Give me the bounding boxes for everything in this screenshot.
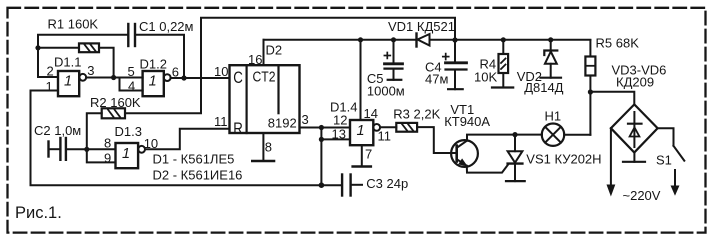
svg-text:4: 4 xyxy=(128,78,135,93)
svg-text:C2 1,0м: C2 1,0м xyxy=(34,123,81,138)
svg-text:10K: 10K xyxy=(474,70,497,85)
svg-text:CT2: CT2 xyxy=(253,69,276,86)
bottom wire pin1 to C3 xyxy=(31,91,342,186)
wire R2 right up to top rail and down to C4 node xyxy=(125,18,455,114)
svg-text:D1.1: D1.1 xyxy=(54,55,81,70)
wire C2 right to D1.3 pin8 xyxy=(67,148,116,150)
resistor R3 xyxy=(396,123,417,132)
svg-text:R5 68K: R5 68K xyxy=(596,36,640,51)
emitter wire to VS1 gate xyxy=(467,165,508,173)
svg-text:16: 16 xyxy=(248,52,262,67)
bridge bottom ground xyxy=(633,153,635,162)
svg-text:11: 11 xyxy=(378,128,392,143)
svg-text:R3 2,2K: R3 2,2K xyxy=(393,107,440,122)
counter D2 box xyxy=(230,65,300,133)
capacitor C3 xyxy=(341,175,343,196)
wire step to pin4 xyxy=(120,78,143,91)
bridge VD3-VD6 diamond xyxy=(611,104,658,152)
supply rail segment B xyxy=(430,39,591,41)
capacitor C5 xyxy=(393,40,395,63)
node junction R1 left xyxy=(35,45,40,50)
wire R1 right down to node xyxy=(99,48,114,78)
svg-text:C1 0,22м: C1 0,22м xyxy=(139,19,194,34)
wire R5/H1 node to bridge top xyxy=(590,92,634,105)
svg-text:VD1 КД521: VD1 КД521 xyxy=(388,19,455,34)
svg-text:R1 160K: R1 160K xyxy=(48,17,99,32)
lamp H1 xyxy=(542,124,564,146)
wire to pin 9 xyxy=(87,149,116,162)
svg-text:10: 10 xyxy=(214,64,228,79)
svg-text:H1: H1 xyxy=(545,108,562,123)
svg-text:D1 - К561ЛЕ5: D1 - К561ЛЕ5 xyxy=(153,151,235,166)
output bubble pin 3 xyxy=(79,74,86,81)
svg-text:8192: 8192 xyxy=(268,116,297,131)
thyristor VS1 xyxy=(512,132,517,137)
pin 8 ground xyxy=(262,133,264,161)
svg-text:R2 160K: R2 160K xyxy=(90,95,141,110)
svg-text:1000м: 1000м xyxy=(367,84,405,99)
op-amp gate D1.2 xyxy=(143,71,164,96)
output bubble pin 11 xyxy=(373,124,380,131)
zener VD2 xyxy=(550,40,552,51)
svg-text:D2: D2 xyxy=(266,43,283,58)
svg-text:1: 1 xyxy=(357,123,365,139)
capacitor C1 xyxy=(127,24,129,46)
node bottom bus junction xyxy=(319,182,325,188)
capacitor C4 xyxy=(454,40,456,62)
pin 2 xyxy=(38,76,58,78)
resistor R4 xyxy=(502,40,504,54)
svg-text:S1: S1 xyxy=(656,153,672,168)
svg-text:C: C xyxy=(233,68,243,87)
svg-text:КД209: КД209 xyxy=(616,75,654,90)
node pin3 junction xyxy=(111,75,116,80)
svg-text:13: 13 xyxy=(332,126,346,141)
svg-text:D1.3: D1.3 xyxy=(115,124,142,139)
svg-text:C3 24p: C3 24p xyxy=(366,176,408,191)
wire pin6 to D2 pin10 xyxy=(171,77,230,79)
resistor R2 xyxy=(102,108,125,118)
svg-text:1: 1 xyxy=(149,74,157,90)
svg-text:7: 7 xyxy=(365,146,372,161)
svg-text:8: 8 xyxy=(265,140,272,155)
svg-text:3: 3 xyxy=(302,112,309,127)
pin 7 ground xyxy=(361,145,363,166)
svg-text:9: 9 xyxy=(104,151,111,166)
svg-text:14: 14 xyxy=(364,106,378,121)
wire C1 right down to pin6 node xyxy=(135,35,184,78)
wire R1 left xyxy=(38,47,79,49)
svg-text:5: 5 xyxy=(128,64,135,79)
svg-text:R: R xyxy=(233,119,243,138)
wire R3 to base xyxy=(417,127,456,153)
svg-text:D2 - К561ИЕ16: D2 - К561ИЕ16 xyxy=(153,168,243,183)
output bubble pin 10 xyxy=(138,146,145,153)
svg-text:~220V: ~220V xyxy=(623,188,661,203)
svg-text:1: 1 xyxy=(46,79,53,94)
transistor VT1 xyxy=(451,140,478,167)
pin 16 riser xyxy=(263,40,265,65)
svg-text:2: 2 xyxy=(47,63,54,78)
pin 3 output wire to D1.4 inputs xyxy=(300,127,351,129)
node C1/pin6 junction xyxy=(181,75,186,80)
switch S1 xyxy=(658,128,674,146)
pin 1 xyxy=(31,90,59,92)
node C2/R2 junction xyxy=(84,147,89,152)
wire to R3 xyxy=(380,126,396,128)
collector wire to H1 xyxy=(467,135,542,141)
pin 14 riser from rail xyxy=(360,40,362,120)
wire R2 left down to C2 node xyxy=(87,113,102,149)
wire vertical bus pins 12/13/C3 xyxy=(320,128,322,186)
svg-text:12: 12 xyxy=(333,112,347,127)
svg-text:D1.2: D1.2 xyxy=(140,56,167,71)
svg-text:11: 11 xyxy=(214,114,228,129)
svg-text:3: 3 xyxy=(87,63,94,78)
supply rail segment A xyxy=(264,39,417,41)
wire top left horizontal to C1 xyxy=(38,35,128,77)
node pin14 riser xyxy=(358,37,363,42)
svg-text:Рис.1.: Рис.1. xyxy=(15,204,62,222)
resistor R1 xyxy=(79,43,99,52)
svg-text:47м: 47м xyxy=(425,72,448,87)
op-amp gate D1.4 xyxy=(350,120,373,145)
capacitor C2 xyxy=(47,142,49,157)
svg-text:Д814Д: Д814Д xyxy=(524,80,563,95)
svg-text:1: 1 xyxy=(122,146,130,162)
node R4 tap xyxy=(501,37,506,42)
svg-text:1: 1 xyxy=(64,74,72,90)
svg-text:КТ940А: КТ940А xyxy=(444,114,490,129)
svg-text:VS1 КУ202Н: VS1 КУ202Н xyxy=(526,151,601,166)
svg-text:8: 8 xyxy=(104,136,111,151)
wire D1.3 out up to D2 pin11 xyxy=(145,129,230,150)
diode VD1 xyxy=(415,34,417,47)
wire H1 right to R5 riser xyxy=(564,134,590,136)
mains wire right with arrow xyxy=(674,170,676,187)
wire pin3 to pin5 xyxy=(86,77,142,79)
mains wire left with arrow xyxy=(610,128,612,186)
op-amp gate D1.1 xyxy=(58,71,79,96)
resistor R5 xyxy=(589,40,591,57)
output bubble pin 6 xyxy=(164,74,171,81)
node C5 tap xyxy=(391,37,396,42)
op-amp gate D1.3 xyxy=(116,143,139,168)
node C4 tap xyxy=(452,37,457,42)
node VD2 tap xyxy=(548,37,553,42)
